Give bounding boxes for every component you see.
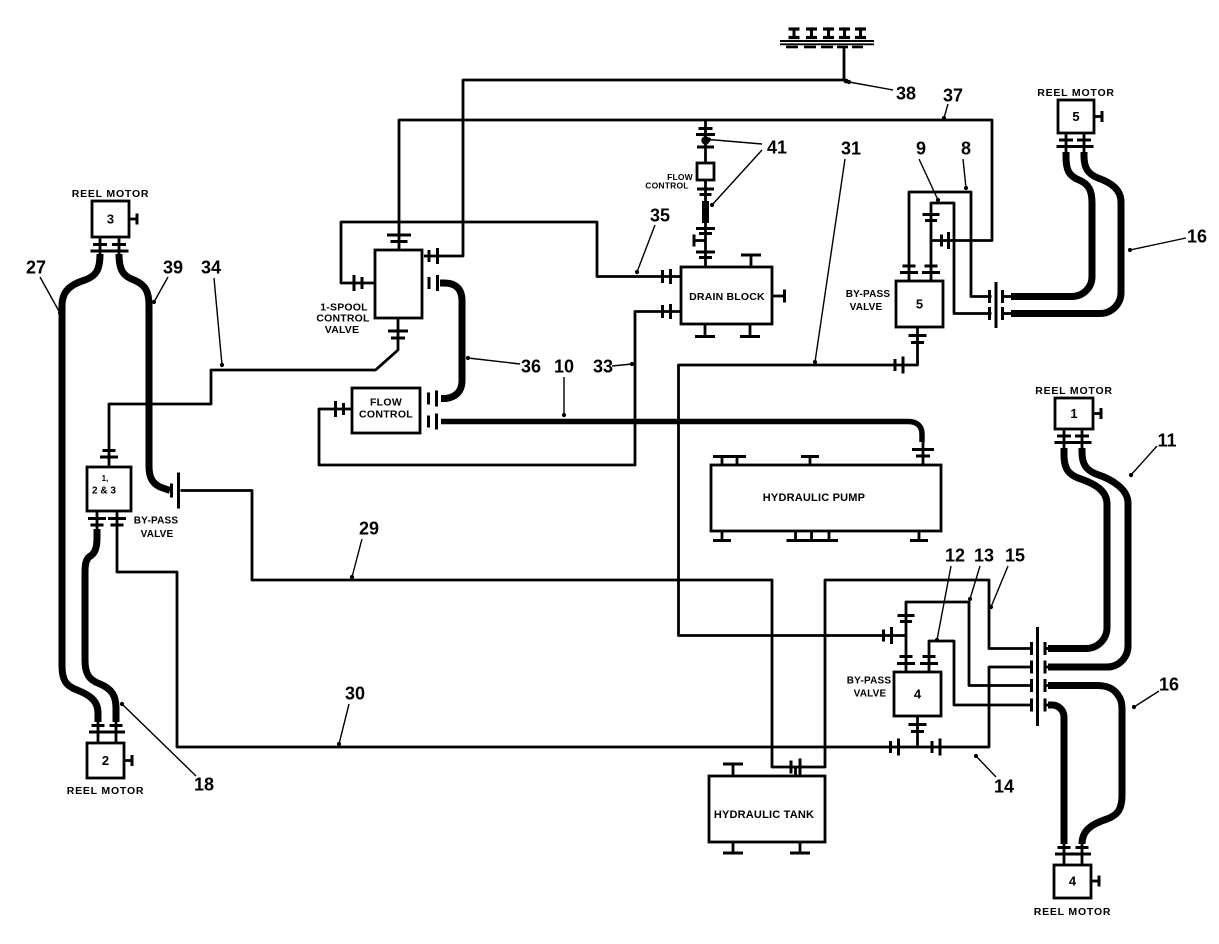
- svg-text:8: 8: [961, 138, 971, 158]
- svg-text:3: 3: [107, 212, 114, 227]
- svg-text:29: 29: [359, 518, 379, 538]
- svg-text:12: 12: [945, 545, 965, 565]
- svg-text:30: 30: [345, 683, 365, 703]
- svg-text:VALVE: VALVE: [141, 529, 174, 540]
- svg-text:HYDRAULIC TANK: HYDRAULIC TANK: [714, 809, 814, 821]
- svg-text:FLOW: FLOW: [370, 396, 402, 408]
- svg-text:14: 14: [994, 776, 1014, 796]
- svg-text:5: 5: [1072, 109, 1079, 124]
- svg-text:4: 4: [1069, 874, 1077, 889]
- svg-text:HYDRAULIC PUMP: HYDRAULIC PUMP: [763, 492, 865, 504]
- svg-text:5: 5: [916, 297, 923, 312]
- svg-text:BY-PASS: BY-PASS: [847, 676, 892, 687]
- svg-text:VALVE: VALVE: [854, 689, 887, 700]
- svg-text:REEL MOTOR: REEL MOTOR: [1037, 87, 1115, 99]
- svg-text:VALVE: VALVE: [850, 302, 883, 313]
- svg-text:REEL MOTOR: REEL MOTOR: [1035, 385, 1113, 397]
- svg-text:2: 2: [102, 753, 109, 768]
- svg-text:16: 16: [1159, 674, 1179, 694]
- svg-text:BY-PASS: BY-PASS: [846, 289, 891, 300]
- svg-text:15: 15: [1005, 545, 1025, 565]
- svg-text:2 & 3: 2 & 3: [92, 486, 116, 497]
- svg-text:13: 13: [974, 545, 994, 565]
- svg-text:CONTROL: CONTROL: [316, 312, 370, 324]
- svg-text:BY-PASS: BY-PASS: [134, 516, 179, 527]
- svg-text:36: 36: [521, 356, 541, 376]
- svg-text:34: 34: [201, 257, 221, 277]
- svg-text:39: 39: [163, 257, 183, 277]
- svg-text:27: 27: [26, 257, 46, 277]
- svg-text:9: 9: [916, 138, 926, 158]
- svg-text:10: 10: [554, 356, 574, 376]
- svg-text:REEL MOTOR: REEL MOTOR: [72, 188, 150, 200]
- svg-text:31: 31: [841, 138, 861, 158]
- svg-text:37: 37: [943, 85, 963, 105]
- svg-text:11: 11: [1157, 430, 1176, 450]
- svg-text:CONTROL: CONTROL: [645, 181, 688, 191]
- svg-text:33: 33: [593, 356, 613, 376]
- svg-text:1,: 1,: [102, 474, 109, 483]
- svg-text:VALVE: VALVE: [325, 324, 359, 336]
- svg-text:1: 1: [1070, 406, 1077, 421]
- svg-text:35: 35: [650, 205, 670, 225]
- svg-text:41: 41: [767, 137, 787, 157]
- svg-text:REEL MOTOR: REEL MOTOR: [67, 785, 145, 797]
- svg-text:16: 16: [1187, 226, 1207, 246]
- svg-text:4: 4: [914, 687, 922, 702]
- svg-text:CONTROL: CONTROL: [359, 408, 413, 420]
- svg-text:REEL MOTOR: REEL MOTOR: [1034, 906, 1112, 918]
- svg-text:DRAIN BLOCK: DRAIN BLOCK: [689, 291, 765, 303]
- svg-text:38: 38: [896, 83, 916, 103]
- svg-text:18: 18: [194, 774, 214, 794]
